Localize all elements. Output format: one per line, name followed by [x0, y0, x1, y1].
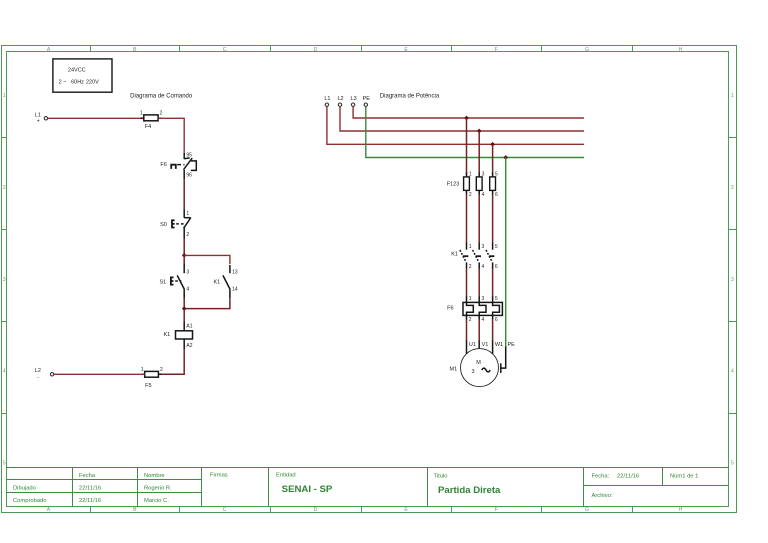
svg-text:3: 3	[482, 296, 485, 302]
svg-text:Fecha:: Fecha:	[592, 473, 610, 479]
contactor K1 pole 2	[473, 243, 485, 270]
wire S0 to node A	[183, 239, 185, 256]
svg-text:PE: PE	[363, 96, 371, 102]
PE terminal tick at motor	[500, 363, 502, 373]
wire PE to motor frame	[501, 347, 505, 369]
wire K1 to F6 pole3	[492, 269, 494, 298]
coil K1	[163, 322, 192, 350]
svg-text:C: C	[223, 47, 227, 53]
svg-text:22/11/16: 22/11/16	[617, 473, 639, 479]
svg-text:13: 13	[232, 270, 238, 276]
wire L3 to row1	[353, 107, 584, 119]
pushbutton S0 (NC)	[160, 209, 191, 238]
svg-text:1: 1	[186, 211, 189, 217]
svg-text:2: 2	[469, 192, 472, 198]
svg-text:Comprobado: Comprobado	[13, 498, 47, 504]
wire drop phase2 to F123	[478, 131, 480, 174]
contactor K1 pole 1	[451, 243, 472, 270]
svg-text:1: 1	[731, 93, 734, 99]
svg-text:2: 2	[731, 185, 734, 191]
svg-text:22/11/16: 22/11/16	[79, 498, 101, 504]
wire L2 to row2	[340, 107, 584, 132]
wire node A to K1 aux branch	[184, 255, 230, 264]
pin U1	[466, 341, 468, 354]
svg-text:A2: A2	[186, 343, 192, 349]
svg-text:2: 2	[186, 232, 189, 238]
svg-text:2: 2	[469, 264, 472, 270]
svg-text:22/11/16: 22/11/16	[79, 485, 101, 491]
pushbutton S1 (NO start)	[159, 255, 189, 298]
svg-text:L3: L3	[351, 96, 357, 102]
node PE drop (junction)	[503, 155, 508, 160]
svg-text:SENAI - SP: SENAI - SP	[282, 484, 333, 495]
node L3 drop (junction)	[490, 142, 495, 147]
svg-text:L2: L2	[35, 368, 41, 374]
terminal L1 (power)	[324, 96, 330, 106]
svg-text:D: D	[314, 47, 318, 53]
svg-text:Marcio C.: Marcio C.	[144, 498, 169, 504]
svg-text:3: 3	[482, 244, 485, 250]
wire PE drop to motor	[505, 158, 507, 348]
svg-text:1: 1	[3, 93, 6, 99]
terminal L1	[35, 112, 48, 124]
node B (junction)	[182, 306, 187, 311]
wire K1 to F6 pole2	[478, 269, 480, 298]
svg-text:Firmas: Firmas	[210, 472, 228, 478]
wire F6 to motor W1	[492, 320, 494, 342]
svg-text:1: 1	[140, 111, 143, 117]
svg-text:6: 6	[495, 317, 498, 323]
svg-text:4: 4	[482, 317, 485, 323]
svg-text:3: 3	[471, 369, 474, 375]
svg-text:1: 1	[469, 244, 472, 250]
contact F6 (NC thermal overload aux)	[160, 153, 196, 180]
motor M1	[450, 349, 499, 387]
svg-text:5: 5	[495, 296, 498, 302]
svg-text:3: 3	[3, 277, 6, 283]
svg-text:F4: F4	[145, 124, 151, 130]
svg-text:Diagrama de Comando: Diagrama de Comando	[130, 93, 193, 99]
svg-text:2: 2	[469, 317, 472, 323]
fuse F4	[140, 111, 162, 131]
svg-text:G: G	[585, 507, 589, 513]
wire coil K1 to F5	[158, 350, 184, 375]
wire F6 to S0	[183, 179, 185, 209]
svg-text:F5: F5	[145, 383, 151, 389]
svg-text:L1: L1	[324, 96, 330, 102]
svg-text:1: 1	[141, 367, 144, 373]
svg-text:4: 4	[731, 369, 734, 375]
svg-text:2: 2	[160, 111, 163, 117]
svg-text:L2: L2	[337, 96, 343, 102]
fuse F123 pole 3	[490, 172, 498, 199]
svg-text:H: H	[679, 507, 683, 513]
wire K1 aux to node B	[184, 299, 230, 309]
svg-text:3: 3	[731, 277, 734, 283]
svg-text:95: 95	[186, 153, 192, 159]
svg-text:Núm1 de 1: Núm1 de 1	[670, 473, 698, 479]
svg-text:E: E	[404, 47, 408, 53]
svg-text:F: F	[495, 507, 498, 513]
wire K1 to F6 pole1	[466, 269, 468, 298]
terminal L3 (power)	[351, 96, 357, 106]
svg-text:C: C	[223, 507, 227, 513]
svg-text:-: -	[37, 375, 39, 381]
wire drop phase3 to F123	[492, 144, 494, 173]
svg-text:B: B	[133, 47, 137, 53]
svg-text:220V: 220V	[86, 80, 99, 86]
node L2 drop (junction)	[477, 129, 482, 134]
svg-text:1: 1	[469, 172, 472, 178]
wire PE to row4	[366, 107, 584, 158]
svg-text:M1: M1	[450, 367, 458, 373]
svg-text:+: +	[37, 119, 40, 125]
svg-text:2 ~: 2 ~	[59, 80, 67, 86]
svg-text:K1: K1	[163, 332, 170, 338]
svg-text:W1: W1	[495, 342, 503, 348]
node A (junction)	[182, 253, 187, 258]
svg-text:Partida Direta: Partida Direta	[438, 485, 501, 496]
contact K1 aux (NO seal-in)	[213, 265, 237, 299]
fuse F5	[141, 367, 163, 389]
node L1 drop (junction)	[464, 116, 469, 121]
svg-text:24VCC: 24VCC	[68, 68, 86, 74]
wire L1 to row3	[327, 107, 584, 145]
contactor K1 pole 3	[486, 243, 498, 270]
svg-text:3: 3	[186, 270, 189, 276]
svg-text:S1: S1	[159, 279, 166, 285]
svg-text:D: D	[314, 507, 318, 513]
wire F123 to K1 pole2	[478, 195, 480, 244]
svg-text:F6: F6	[160, 162, 166, 168]
wire F123 to K1 pole3	[492, 195, 494, 244]
svg-text:60Hz: 60Hz	[71, 80, 84, 86]
svg-text:2: 2	[160, 367, 163, 373]
wire drop phase1 to F123	[466, 118, 468, 174]
svg-text:Nombre: Nombre	[144, 473, 165, 479]
wire F123 to K1 pole1	[466, 195, 468, 244]
supply spec box 24VCC	[53, 59, 112, 92]
svg-text:K1: K1	[213, 279, 220, 285]
svg-text:S0: S0	[160, 222, 167, 228]
svg-text:Rogerio R.: Rogerio R.	[144, 485, 172, 491]
svg-text:Diagrama de Potência: Diagrama de Potência	[380, 93, 440, 99]
svg-text:V1: V1	[482, 342, 489, 348]
svg-text:Dibujado: Dibujado	[13, 485, 36, 491]
svg-text:2: 2	[3, 185, 6, 191]
svg-text:H: H	[679, 47, 683, 53]
wire F4 to F6	[158, 118, 184, 153]
svg-text:6: 6	[495, 264, 498, 270]
pin V1	[478, 341, 480, 349]
svg-text:14: 14	[232, 286, 238, 292]
fuse F123 pole 2	[476, 172, 484, 199]
svg-text:4: 4	[482, 264, 485, 270]
svg-text:3: 3	[482, 172, 485, 178]
svg-text:4: 4	[3, 369, 6, 375]
svg-text:Fecha: Fecha	[79, 473, 96, 479]
svg-text:4: 4	[186, 286, 189, 292]
svg-text:K1: K1	[451, 251, 458, 257]
svg-text:U1: U1	[469, 342, 476, 348]
overload relay F6 (power)	[447, 296, 502, 323]
svg-text:96: 96	[186, 173, 192, 179]
svg-text:Archivo:: Archivo:	[592, 493, 613, 499]
svg-text:F: F	[495, 47, 498, 53]
svg-text:5: 5	[495, 172, 498, 178]
fuse F123 pole 1	[447, 172, 472, 199]
pin W1	[492, 341, 494, 354]
svg-text:A1: A1	[186, 323, 192, 329]
svg-text:4: 4	[482, 192, 485, 198]
terminal L2	[35, 368, 54, 381]
svg-text:PE: PE	[508, 342, 516, 348]
svg-text:5: 5	[3, 460, 6, 466]
svg-text:F123: F123	[447, 181, 460, 187]
terminal L2 (power)	[337, 96, 343, 106]
wire F6 to motor V1	[478, 320, 480, 342]
wire F6 to motor U1	[466, 320, 468, 342]
svg-text:L1: L1	[35, 112, 41, 118]
svg-text:M: M	[476, 360, 481, 366]
wire S1 to node B	[183, 299, 185, 309]
wire node B to coil K1	[183, 309, 185, 322]
svg-text:Titulo: Titulo	[434, 474, 448, 480]
svg-text:5: 5	[731, 460, 734, 466]
svg-text:A: A	[47, 47, 51, 53]
svg-text:G: G	[585, 47, 589, 53]
svg-text:Entidad: Entidad	[276, 472, 296, 478]
wire L1 to F4	[48, 117, 143, 119]
svg-text:1: 1	[469, 296, 472, 302]
wire F5 to L2	[54, 373, 145, 375]
terminal PE (power)	[363, 96, 371, 106]
svg-text:5: 5	[495, 244, 498, 250]
svg-text:F6: F6	[447, 306, 453, 312]
svg-text:6: 6	[495, 192, 498, 198]
